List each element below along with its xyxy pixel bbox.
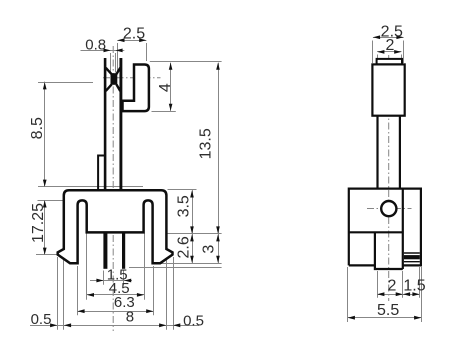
extension line 17.25 top [38,200,88,202]
extension line 8 left [63,256,65,330]
crimp bowtie waist [111,73,118,85]
hook clip profile [123,65,149,112]
dim line 1.5 [90,280,132,282]
leg left [103,232,107,268]
housing body with prongs and barbs [58,190,173,263]
dim line 6.3 [77,311,153,313]
extension line rv 2 right [401,55,403,59]
arrows 17.25 [43,200,47,207]
rv shaft left line [376,116,378,189]
arrows 1.5 [96,279,103,283]
extension line 8 right [166,256,168,330]
extension line 4.5 left [86,234,88,300]
arrows 4 [169,63,173,70]
svg-text:8: 8 [126,309,134,326]
centerline right view vertical [388,55,390,301]
extension line 8.5 top (crimp) [38,82,93,84]
solder tab left of blade [98,156,104,191]
extension line 2.5 left [117,43,119,71]
arrows 2.6 [190,234,194,241]
svg-text:0.8: 0.8 [85,36,106,53]
dim line rv 5.5 [348,317,422,319]
extension line 0.5 left barb tip [57,257,59,330]
extension line 4.5 right [144,234,146,300]
dim line 4.5 [87,294,144,296]
svg-text:8.5: 8.5 [29,117,46,139]
svg-text:0.5: 0.5 [31,311,52,328]
extension line 4 bottom [152,111,176,113]
svg-text:1.5: 1.5 [403,277,425,294]
extension line 2.5 right [146,43,148,61]
rv stripe thin 1 [404,252,420,254]
extension line 8.5 bottom (housing top) [38,186,143,188]
centerline right view horizontal through hole [367,208,412,210]
extension line 17.25 bottom [36,254,57,256]
rv upper block [372,64,404,115]
svg-text:2: 2 [388,277,397,294]
arrows 2.5 [117,38,124,42]
extension line rv 1.5 right [419,267,421,298]
dim line 0.8 [81,50,125,52]
arrows 8.5 [43,82,47,89]
arrows 4.5 [87,293,94,297]
dim line rv 2 [377,51,401,53]
extension line rv bottom 2 left [377,271,379,298]
blade right line [119,58,122,190]
extension line 6.3 left [77,266,79,315]
arrows 3 [216,234,220,241]
arrow 0.5 left [50,323,57,327]
rv middle column [375,232,403,269]
extension line 0.5 right barb tip [173,257,175,330]
svg-text:5.5: 5.5 [377,302,399,319]
dim line 0.5 / 8 / 0.5 [30,325,199,327]
extension line rv 2 left [377,55,379,59]
extension line 3.5 top [168,189,197,191]
dim line 8.5 [44,82,46,187]
dim line 13.5 and 3 [218,63,220,264]
rv inner divider line [402,189,404,269]
arrows rv 2 [377,50,384,54]
arrows rv 5.5 [348,316,355,320]
extension line 6.3 right [153,266,155,315]
svg-text:4: 4 [157,83,174,92]
svg-text:3: 3 [201,245,218,254]
svg-text:13.5: 13.5 [198,128,215,159]
arrows 0.8 [104,49,111,53]
arrow 0.5 right [173,323,180,327]
extension line rv 5.5 right [421,267,423,322]
rv stripe thick [404,255,420,259]
extension line top of hook (4 / 13.5 datum) [150,61,222,63]
svg-text:3.5: 3.5 [176,195,193,217]
rv main block outline [349,189,421,266]
dim line 2.5 [117,40,146,42]
extension line 13.5 bottom / 3 top [168,233,222,235]
dim line 3.5 and 2.6 [192,190,194,263]
arrows 8 [64,323,71,327]
extension line 2.6 / 3 bottom [157,263,222,265]
svg-text:2.5: 2.5 [123,25,145,42]
arrows rv 2.5 [373,35,380,39]
dim line rv 2.5 [373,37,404,39]
svg-text:2.6: 2.6 [176,236,193,258]
dim line 17.25 [44,200,46,255]
svg-text:2: 2 [386,37,395,54]
dim line rv 2 and 1.5 bottom [377,294,419,296]
arrows 6.3 [77,309,84,313]
extension line 0.8 right [115,53,117,73]
crimp bowtie diagonals [106,68,120,91]
svg-text:0.5: 0.5 [183,312,204,329]
extension line 1.5 right [123,271,125,285]
extension line rv 2.5 right [403,41,405,64]
centerline left view horizontal (crimp axis) [103,77,161,79]
blade left line [104,58,107,190]
rv hole circle [381,201,396,216]
extension line rv bottom shared [402,271,404,298]
rv shaft right line [399,116,401,189]
extension line leg bottom datum [129,267,222,269]
extension line rv 2.5 left [372,41,374,64]
extension line rv 5.5 left [347,267,349,322]
arrows rv bottom 1.5 [403,292,410,296]
svg-text:17.25: 17.25 [30,203,47,243]
extension line 1.5 left [103,271,105,285]
arrows 3.5 [190,190,194,197]
arrows 13.5 [216,63,220,70]
rv block horizontal divider [349,231,403,233]
extension line 0.8 left [110,53,112,73]
rv cap [377,59,402,65]
leg right [122,232,125,268]
arrows rv bottom 2 [377,292,384,296]
rv stripe thin 2 [404,261,420,263]
dim line 4 [170,63,172,111]
centerline left view vertical [112,46,114,331]
